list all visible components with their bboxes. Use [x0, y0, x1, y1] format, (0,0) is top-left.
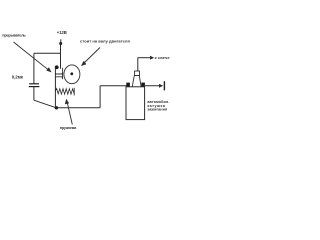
wire bottom horizontal — [56, 107, 100, 109]
cam follower bar — [62, 68, 64, 79]
coil body (автомобильная катушка зажигания) — [126, 87, 145, 120]
HV wire to spark plug — [138, 57, 152, 59]
svg-text:к свече: к свече — [155, 55, 170, 60]
breaker contact plate upper — [55, 73, 62, 74]
breaker contact pivot blob — [55, 65, 59, 69]
wire diagonal to bottom node — [34, 100, 56, 108]
coil tower neck — [132, 76, 141, 87]
spring anchor bar — [73, 88, 75, 96]
junction dot at +12V node — [59, 42, 62, 45]
wire horizontal to capacitor branch — [34, 52, 61, 54]
capacitor C plates — [29, 83, 39, 85]
wire from coil right terminal — [145, 85, 161, 87]
wire capacitor bottom lead — [33, 87, 35, 100]
arrow from label to breaker contacts — [14, 42, 51, 71]
wire to ignition coil primary — [100, 85, 127, 87]
breaker moving arm — [54, 68, 56, 108]
coil right terminal — [141, 83, 145, 87]
wire vertical from +12V node down — [60, 44, 62, 69]
coil left terminal — [126, 83, 130, 87]
wire right vertical up — [99, 86, 101, 108]
wire stub from +12V — [60, 39, 62, 43]
breaker contact plate lower — [55, 77, 62, 79]
svg-text:+12В: +12В — [57, 30, 67, 35]
junction dot bottom node — [55, 106, 58, 109]
arrow into terminal bar — [159, 84, 163, 88]
terminal bar — [163, 81, 165, 90]
svg-text:зажигания: зажигания — [147, 108, 167, 112]
svg-text:стоит на валу двигателя: стоит на валу двигателя — [80, 39, 130, 44]
wire vertical capacitor top lead — [33, 53, 35, 83]
svg-text:прерыватель: прерыватель — [2, 33, 26, 38]
arrow from label to cam — [83, 48, 101, 65]
arrow from label to spring — [67, 102, 72, 125]
cam shaft center dot — [70, 72, 73, 75]
cam circle on engine shaft — [64, 65, 80, 84]
spring (пружинка) zigzag — [55, 89, 74, 95]
svg-text:0,2мк: 0,2мк — [12, 75, 24, 80]
ignition coil HV wire up — [137, 58, 139, 71]
coil HV tower cap — [135, 71, 140, 76]
svg-text:пружинка: пружинка — [60, 126, 77, 130]
